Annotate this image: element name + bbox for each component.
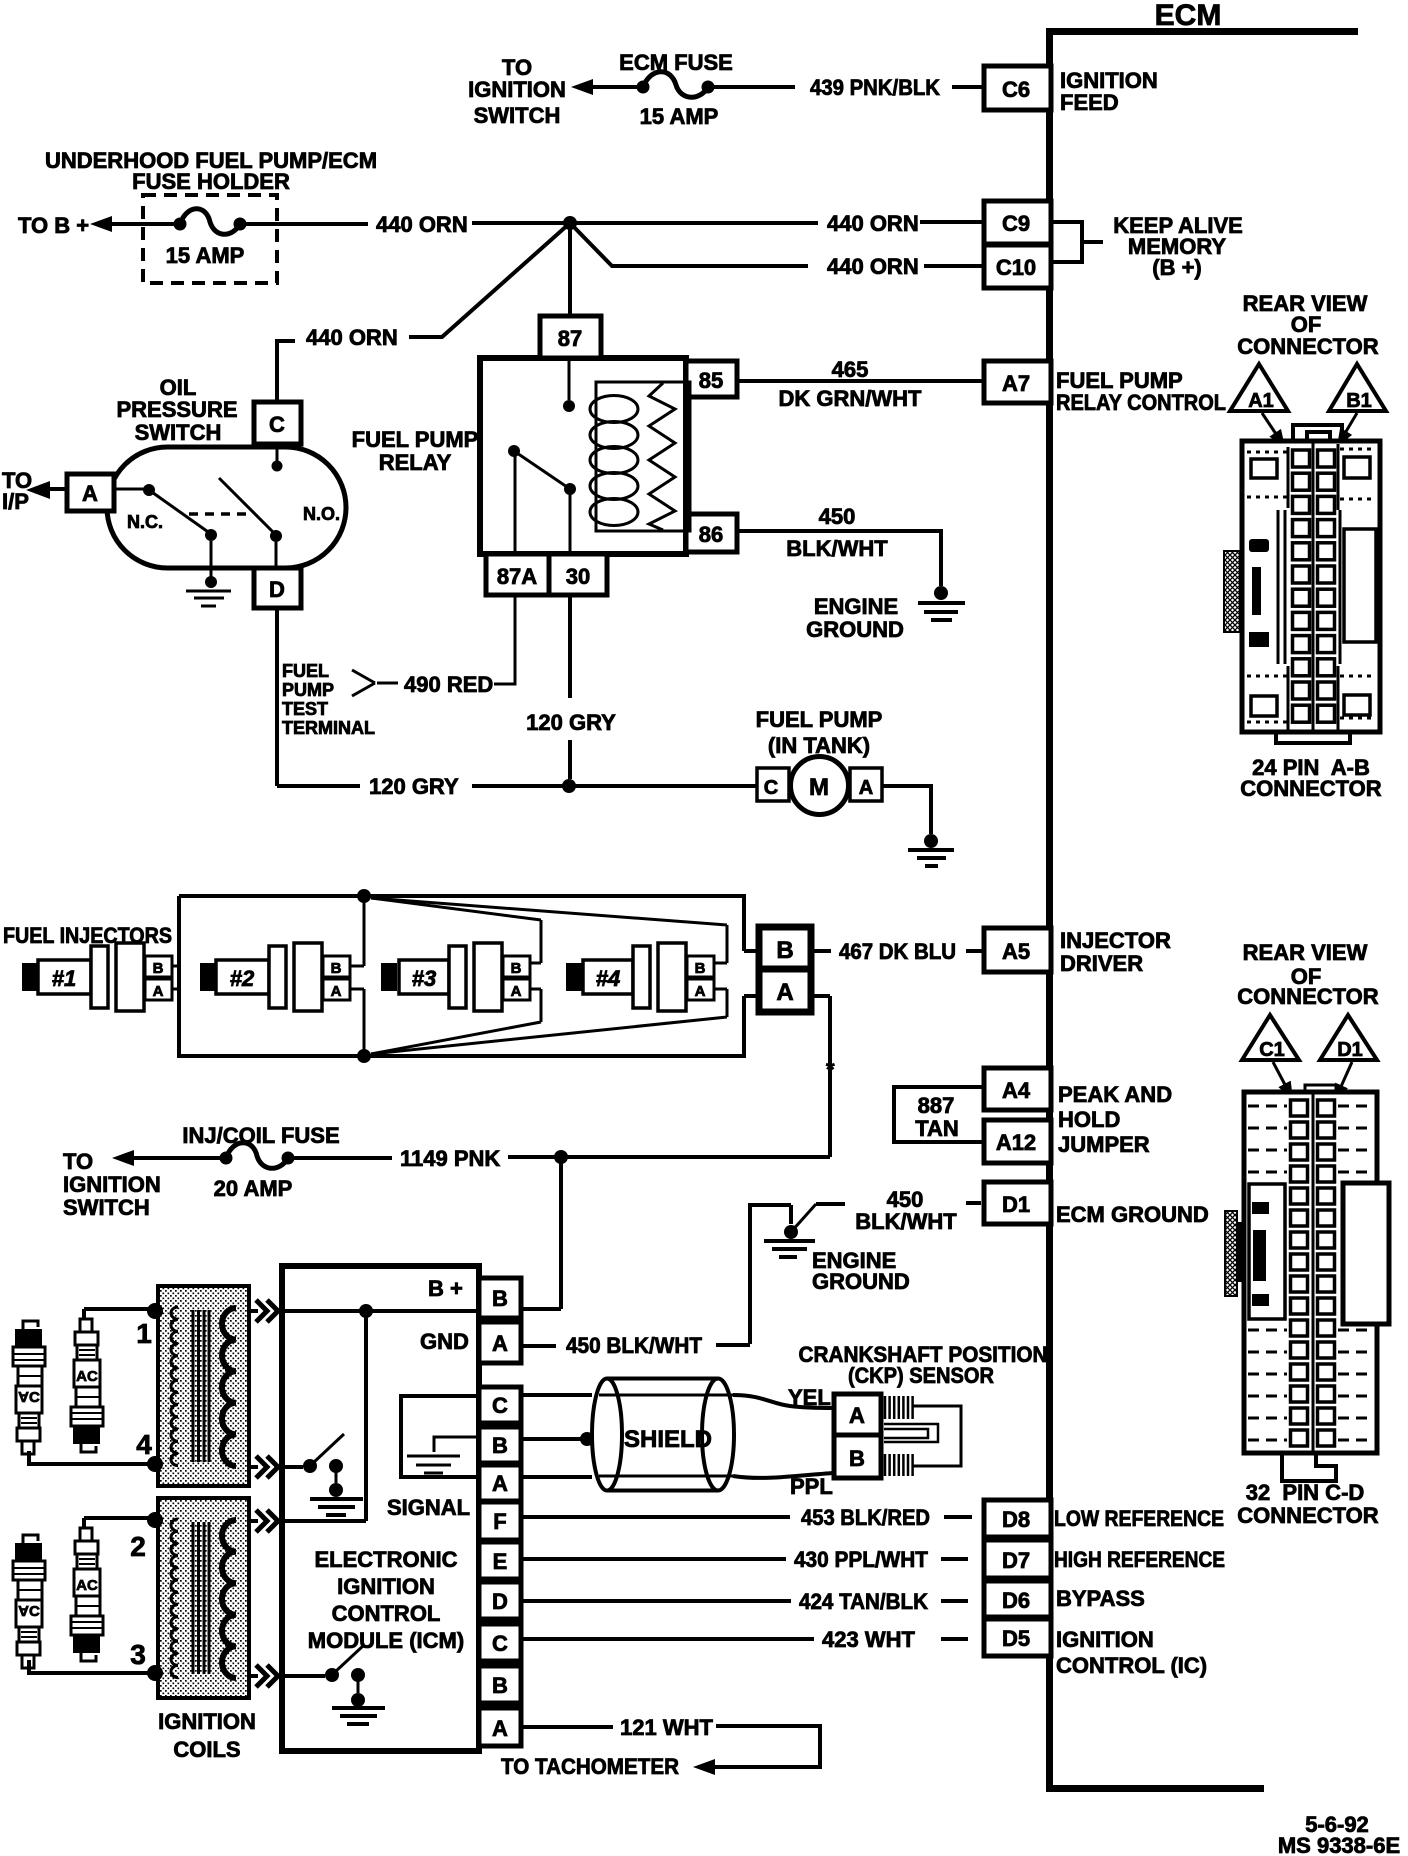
svg-text:120 GRY: 120 GRY	[526, 710, 616, 735]
svg-text:*: *	[826, 1057, 835, 1082]
svg-text:B: B	[776, 937, 793, 964]
svg-text:CONNECTOR: CONNECTOR	[1237, 984, 1378, 1009]
svg-text:#4: #4	[596, 966, 620, 991]
svg-text:INJECTOR: INJECTOR	[1060, 928, 1171, 953]
svg-text:D6: D6	[1002, 1588, 1030, 1613]
svg-text:FUSE HOLDER: FUSE HOLDER	[132, 169, 290, 194]
svg-text:3: 3	[130, 1639, 146, 1670]
svg-text:M: M	[809, 774, 829, 801]
svg-text:D5: D5	[1002, 1626, 1030, 1651]
svg-text:A: A	[153, 983, 164, 1000]
svg-text:GROUND: GROUND	[806, 617, 904, 642]
svg-text:490 RED: 490 RED	[404, 672, 493, 697]
svg-text:TO TACHOMETER: TO TACHOMETER	[501, 1754, 679, 1779]
svg-text:TO: TO	[63, 1149, 93, 1174]
svg-text:465: 465	[832, 357, 869, 382]
svg-text:ELECTRONIC: ELECTRONIC	[315, 1547, 458, 1572]
svg-text:87: 87	[558, 326, 582, 351]
svg-text:ECM FUSE: ECM FUSE	[619, 50, 733, 75]
svg-text:C1: C1	[1259, 1039, 1285, 1061]
svg-text:A7: A7	[1002, 371, 1030, 396]
svg-text:DRIVER: DRIVER	[1060, 951, 1143, 976]
svg-text:C6: C6	[1002, 77, 1030, 102]
svg-text:AC: AC	[76, 1368, 98, 1385]
svg-text:ECM: ECM	[1155, 0, 1222, 32]
svg-text:A: A	[82, 481, 98, 506]
svg-text:B: B	[695, 960, 706, 977]
svg-text:A: A	[849, 1403, 865, 1428]
svg-text:GROUND: GROUND	[812, 1269, 910, 1294]
svg-text:JUMPER: JUMPER	[1058, 1132, 1150, 1157]
svg-text:A: A	[492, 1331, 508, 1356]
svg-text:TO B +: TO B +	[18, 213, 89, 238]
svg-text:SHIELD: SHIELD	[624, 1426, 712, 1453]
svg-text:SWITCH: SWITCH	[474, 103, 561, 128]
svg-text:A4: A4	[1002, 1078, 1031, 1103]
svg-text:C: C	[492, 1631, 508, 1656]
svg-text:20 AMP: 20 AMP	[214, 1176, 293, 1201]
svg-text:CONNECTOR: CONNECTOR	[1240, 776, 1381, 801]
svg-text:B: B	[492, 1673, 508, 1698]
svg-text:IGNITION: IGNITION	[337, 1574, 435, 1599]
svg-text:A5: A5	[1002, 939, 1030, 964]
svg-text:RELAY: RELAY	[379, 450, 452, 475]
svg-text:A: A	[776, 979, 793, 1006]
svg-text:LOW REFERENCE: LOW REFERENCE	[1054, 1506, 1224, 1531]
svg-text:IGNITION: IGNITION	[63, 1172, 161, 1197]
svg-text:887: 887	[918, 1093, 955, 1118]
svg-text:A: A	[695, 983, 706, 1000]
svg-text:C: C	[269, 412, 285, 437]
svg-text:A: A	[492, 1716, 508, 1741]
svg-text:86: 86	[699, 522, 723, 547]
svg-text:#3: #3	[412, 966, 436, 991]
svg-text:COILS: COILS	[173, 1737, 240, 1762]
svg-text:D8: D8	[1002, 1507, 1030, 1532]
svg-text:1149 PNK: 1149 PNK	[400, 1146, 500, 1171]
svg-text:IGNITION: IGNITION	[468, 77, 566, 102]
svg-text:D1: D1	[1337, 1039, 1363, 1061]
svg-text:D7: D7	[1002, 1548, 1030, 1573]
svg-text:430 PPL/WHT: 430 PPL/WHT	[794, 1547, 929, 1572]
svg-text:CONNECTOR: CONNECTOR	[1237, 1503, 1378, 1528]
svg-text:D: D	[492, 1589, 508, 1614]
svg-text:A: A	[859, 777, 873, 799]
svg-text:4: 4	[136, 1429, 152, 1460]
svg-text:HOLD: HOLD	[1058, 1107, 1120, 1132]
svg-text:453 BLK/RED: 453 BLK/RED	[801, 1505, 930, 1530]
svg-text:REAR VIEW: REAR VIEW	[1243, 940, 1368, 965]
svg-text:B: B	[153, 960, 164, 977]
svg-text:ECM GROUND: ECM GROUND	[1056, 1202, 1209, 1227]
svg-text:PEAK AND: PEAK AND	[1058, 1082, 1172, 1107]
svg-text:SIGNAL: SIGNAL	[387, 1495, 470, 1520]
svg-text:BYPASS: BYPASS	[1056, 1586, 1145, 1611]
svg-text:B: B	[849, 1446, 865, 1471]
svg-text:120 GRY: 120 GRY	[369, 774, 459, 799]
svg-text:MS 9338-6E: MS 9338-6E	[1278, 1833, 1400, 1856]
svg-text:DK GRN/WHT: DK GRN/WHT	[779, 386, 923, 411]
svg-text:440 ORN: 440 ORN	[376, 212, 468, 237]
svg-text:439 PNK/BLK: 439 PNK/BLK	[810, 75, 940, 100]
svg-text:A12: A12	[996, 1130, 1036, 1155]
svg-text:F: F	[493, 1509, 506, 1534]
svg-text:ENGINE: ENGINE	[814, 594, 898, 619]
svg-text:B1: B1	[1346, 390, 1372, 412]
svg-text:B +: B +	[428, 1276, 463, 1301]
svg-text:IGNITION: IGNITION	[1056, 1627, 1154, 1652]
svg-text:FEED: FEED	[1060, 90, 1119, 115]
svg-text:BLK/WHT: BLK/WHT	[786, 536, 888, 561]
svg-text:SWITCH: SWITCH	[135, 420, 222, 445]
svg-text:SWITCH: SWITCH	[63, 1195, 150, 1220]
svg-text:E: E	[493, 1549, 508, 1574]
svg-text:423 WHT: 423 WHT	[822, 1627, 915, 1652]
svg-text:15 AMP: 15 AMP	[640, 104, 719, 129]
svg-text:PRESSURE: PRESSURE	[116, 397, 237, 422]
svg-text:CONTROL (IC): CONTROL (IC)	[1056, 1653, 1207, 1678]
svg-text:TERMINAL: TERMINAL	[282, 718, 375, 738]
svg-text:32 PIN C-D: 32 PIN C-D	[1246, 1480, 1365, 1505]
svg-text:87A: 87A	[497, 564, 537, 589]
svg-text:440 ORN: 440 ORN	[827, 211, 919, 236]
svg-text:2: 2	[130, 1531, 146, 1562]
svg-text:450 BLK/WHT: 450 BLK/WHT	[566, 1333, 703, 1358]
svg-text:FUEL INJECTORS: FUEL INJECTORS	[3, 923, 172, 948]
svg-text:440 ORN: 440 ORN	[827, 254, 919, 279]
svg-text:C: C	[764, 777, 778, 799]
svg-text:1: 1	[136, 1318, 152, 1349]
svg-text:N.C.: N.C.	[127, 512, 163, 532]
svg-text:INJ/COIL FUSE: INJ/COIL FUSE	[182, 1123, 339, 1148]
svg-text:A: A	[511, 983, 522, 1000]
svg-text:85: 85	[699, 368, 723, 393]
svg-text:GND: GND	[420, 1329, 469, 1354]
svg-text:C10: C10	[996, 255, 1036, 280]
svg-text:C9: C9	[1002, 211, 1030, 236]
svg-text:PUMP: PUMP	[282, 680, 334, 700]
svg-text:30: 30	[566, 564, 590, 589]
svg-text:424 TAN/BLK: 424 TAN/BLK	[799, 1589, 928, 1614]
svg-text:TEST: TEST	[282, 699, 328, 719]
svg-text:PPL: PPL	[790, 1474, 833, 1499]
svg-text:450: 450	[819, 504, 856, 529]
svg-text:B: B	[331, 960, 342, 977]
svg-text:440 ORN: 440 ORN	[306, 325, 398, 350]
svg-text:CONNECTOR: CONNECTOR	[1237, 334, 1378, 359]
svg-text:RELAY CONTROL: RELAY CONTROL	[1056, 390, 1226, 415]
svg-text:121 WHT: 121 WHT	[620, 1715, 713, 1740]
svg-text:YEL: YEL	[788, 1385, 831, 1410]
svg-text:D1: D1	[1002, 1192, 1030, 1217]
svg-text:B: B	[511, 960, 522, 977]
svg-text:(B +): (B +)	[1152, 255, 1202, 280]
svg-text:15 AMP: 15 AMP	[166, 243, 245, 268]
svg-text:(CKP) SENSOR: (CKP) SENSOR	[848, 1363, 994, 1388]
svg-text:B: B	[492, 1286, 508, 1311]
svg-text:HIGH REFERENCE: HIGH REFERENCE	[1054, 1547, 1225, 1572]
svg-text:A1: A1	[1248, 390, 1274, 412]
svg-text:#2: #2	[230, 966, 255, 991]
svg-text:#1: #1	[52, 966, 76, 991]
svg-text:FUEL: FUEL	[282, 661, 329, 681]
svg-text:TAN: TAN	[915, 1116, 959, 1141]
svg-text:IGNITION: IGNITION	[158, 1709, 256, 1734]
svg-text:FUEL PUMP: FUEL PUMP	[352, 427, 479, 452]
svg-text:467 DK BLU: 467 DK BLU	[839, 939, 956, 964]
svg-text:B: B	[492, 1433, 508, 1458]
svg-text:A: A	[492, 1471, 508, 1496]
svg-text:FUEL PUMP: FUEL PUMP	[756, 707, 883, 732]
svg-text:BLK/WHT: BLK/WHT	[855, 1209, 957, 1234]
svg-text:MODULE (ICM): MODULE (ICM)	[308, 1628, 464, 1653]
svg-text:I/P: I/P	[2, 489, 29, 514]
svg-text:C: C	[492, 1393, 508, 1418]
svg-text:D: D	[269, 577, 285, 602]
svg-text:N.O.: N.O.	[303, 504, 340, 524]
svg-text:A: A	[331, 983, 342, 1000]
svg-text:CONTROL: CONTROL	[332, 1601, 441, 1626]
